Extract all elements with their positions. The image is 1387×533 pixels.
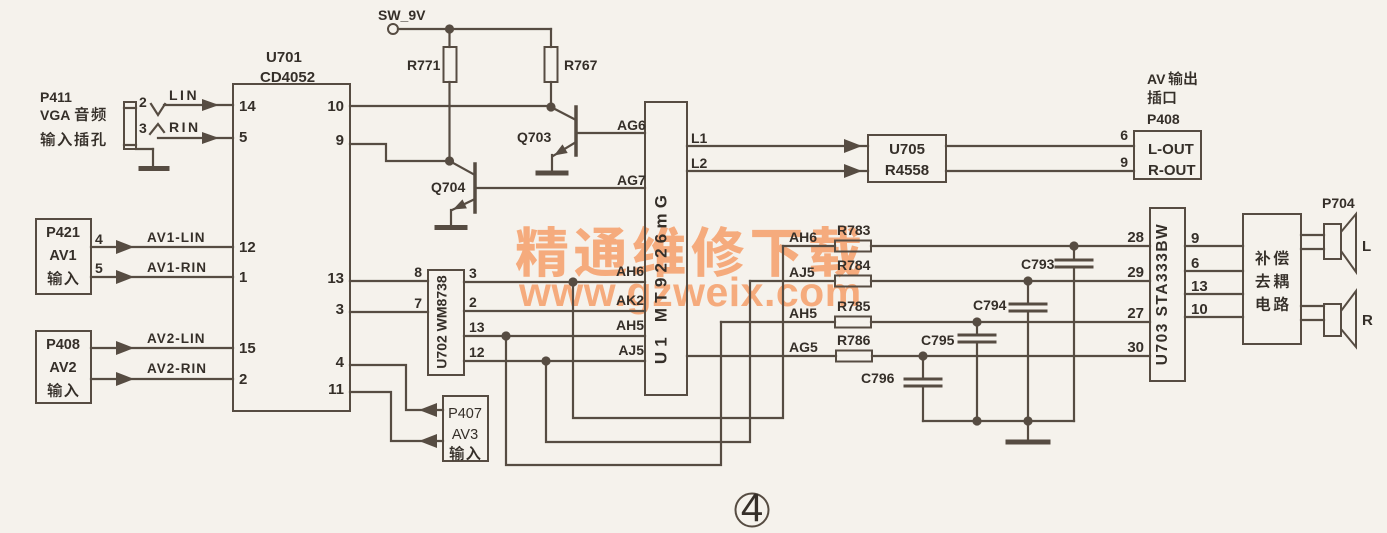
svg-text:11: 11 — [328, 381, 344, 398]
svg-text:U705: U705 — [889, 141, 925, 158]
svg-text:AV2: AV2 — [49, 360, 76, 376]
svg-text:R786: R786 — [837, 332, 871, 348]
svg-text:Q704: Q704 — [431, 179, 465, 195]
svg-text:15: 15 — [239, 340, 256, 357]
svg-text:3: 3 — [336, 301, 344, 318]
svg-text:P407: P407 — [448, 406, 482, 422]
svg-text:9: 9 — [1120, 154, 1128, 170]
svg-text:10: 10 — [1191, 301, 1208, 318]
svg-text:SW_9V: SW_9V — [378, 7, 426, 23]
svg-text:L1: L1 — [691, 130, 708, 146]
svg-text:LIN: LIN — [169, 87, 199, 103]
svg-text:CD4052: CD4052 — [260, 69, 315, 86]
svg-text:AK2: AK2 — [616, 292, 644, 308]
svg-text:AV2-RIN: AV2-RIN — [147, 361, 207, 376]
svg-text:AJ5: AJ5 — [618, 342, 644, 358]
svg-text:4: 4 — [741, 486, 763, 530]
svg-text:27: 27 — [1127, 305, 1144, 322]
svg-text:R785: R785 — [837, 298, 871, 314]
svg-text:L: L — [1362, 238, 1371, 255]
svg-text:5: 5 — [239, 129, 247, 146]
svg-text:AH5: AH5 — [789, 305, 817, 321]
svg-text:R4558: R4558 — [885, 162, 929, 179]
svg-text:RIN: RIN — [169, 119, 201, 135]
svg-text:U703 STA333BW: U703 STA333BW — [1154, 223, 1171, 365]
svg-text:4: 4 — [336, 354, 345, 371]
svg-text:AV: AV — [1147, 71, 1166, 87]
svg-text:2: 2 — [139, 94, 147, 110]
svg-text:AH6: AH6 — [616, 263, 644, 279]
svg-text:AV3: AV3 — [452, 427, 478, 443]
svg-text:9: 9 — [1191, 230, 1199, 247]
svg-text:6: 6 — [1191, 255, 1199, 272]
svg-text:U701: U701 — [266, 49, 302, 66]
svg-text:13: 13 — [1191, 278, 1208, 295]
svg-text:3: 3 — [139, 120, 147, 136]
svg-text:10: 10 — [327, 98, 344, 115]
svg-text:R767: R767 — [564, 57, 598, 73]
svg-text:12: 12 — [239, 239, 256, 256]
svg-text:12: 12 — [469, 344, 485, 360]
svg-text:AG6: AG6 — [617, 117, 646, 133]
svg-text:AJ5: AJ5 — [789, 264, 815, 280]
svg-text:3: 3 — [469, 265, 477, 281]
svg-text:30: 30 — [1127, 339, 1144, 356]
svg-text:AH5: AH5 — [616, 317, 644, 333]
svg-text:4: 4 — [95, 231, 103, 247]
svg-text:U1 MT9226mG: U1 MT9226mG — [652, 190, 671, 364]
svg-text:AV1: AV1 — [49, 248, 76, 264]
svg-text:VGA: VGA — [40, 107, 70, 123]
svg-text:Q703: Q703 — [517, 129, 551, 145]
svg-text:R783: R783 — [837, 222, 871, 238]
svg-text:R784: R784 — [837, 257, 871, 273]
svg-text:14: 14 — [239, 98, 256, 115]
svg-text:9: 9 — [336, 132, 344, 149]
svg-text:C795: C795 — [921, 332, 955, 348]
svg-text:C796: C796 — [861, 370, 895, 386]
svg-text:P411: P411 — [40, 89, 72, 105]
svg-text:7: 7 — [414, 295, 422, 311]
svg-text:R771: R771 — [407, 57, 441, 73]
svg-text:R-OUT: R-OUT — [1148, 162, 1196, 179]
svg-text:1: 1 — [239, 269, 247, 286]
svg-text:L2: L2 — [691, 155, 708, 171]
svg-text:2: 2 — [469, 294, 477, 310]
svg-text:AV2-LIN: AV2-LIN — [147, 331, 206, 346]
svg-text:29: 29 — [1127, 264, 1144, 281]
svg-text:2: 2 — [239, 371, 247, 388]
svg-text:13: 13 — [327, 270, 344, 287]
svg-text:L-OUT: L-OUT — [1148, 141, 1194, 158]
svg-text:AV1-RIN: AV1-RIN — [147, 260, 207, 275]
svg-text:C794: C794 — [973, 297, 1007, 313]
svg-text:13: 13 — [469, 319, 485, 335]
svg-text:5: 5 — [95, 260, 103, 276]
svg-text:P704: P704 — [1322, 195, 1355, 211]
svg-text:AG7: AG7 — [617, 172, 646, 188]
svg-text:AV1-LIN: AV1-LIN — [147, 230, 206, 245]
svg-text:AG5: AG5 — [789, 339, 818, 355]
svg-text:P408: P408 — [46, 337, 80, 353]
svg-text:C793: C793 — [1021, 256, 1055, 272]
svg-text:R: R — [1362, 312, 1373, 329]
svg-text:28: 28 — [1127, 229, 1144, 246]
svg-text:6: 6 — [1120, 127, 1128, 143]
svg-text:8: 8 — [414, 264, 422, 280]
svg-text:U702 WM8738: U702 WM8738 — [434, 275, 450, 369]
svg-text:P421: P421 — [46, 225, 80, 241]
svg-text:AH6: AH6 — [789, 229, 817, 245]
svg-text:P408: P408 — [1147, 111, 1180, 127]
